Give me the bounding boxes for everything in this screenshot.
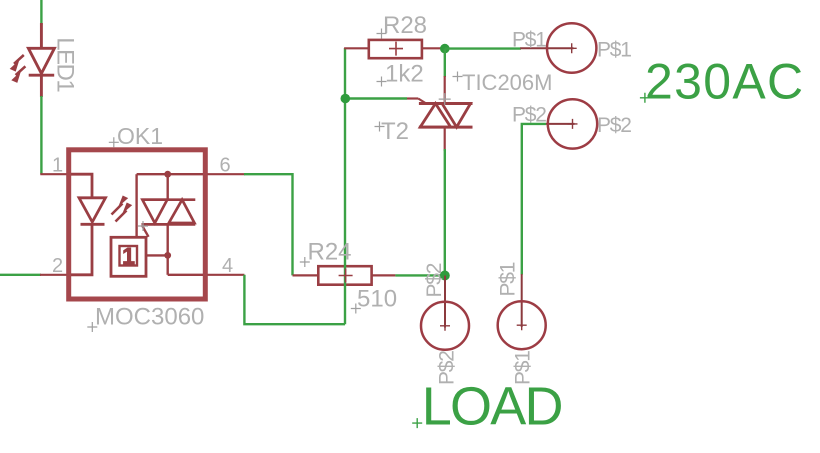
svg-text:4: 4 bbox=[222, 255, 233, 277]
opto internal light arrows bbox=[112, 196, 133, 222]
svg-text:P$2: P$2 bbox=[423, 263, 446, 297]
pad P$2 top bbox=[546, 99, 597, 148]
wire bbox=[444, 49, 446, 77]
junction bbox=[440, 271, 450, 281]
net label LOAD bbox=[412, 377, 561, 437]
wire bbox=[40, 0, 42, 25]
svg-text:TIC206M: TIC206M bbox=[462, 70, 552, 95]
svg-text:P$1: P$1 bbox=[497, 262, 520, 296]
junction bbox=[440, 44, 450, 54]
svg-text:6: 6 bbox=[220, 154, 231, 176]
opto internal MT1 wire bbox=[146, 224, 203, 274]
svg-text:P$1: P$1 bbox=[512, 29, 546, 52]
resistor R28 bbox=[344, 40, 443, 58]
pin 4 stub bbox=[208, 274, 245, 276]
svg-text:510: 510 bbox=[357, 286, 397, 313]
svg-text:R28: R28 bbox=[383, 12, 427, 39]
pad P$1 bottom bbox=[498, 274, 546, 349]
label R24 bbox=[300, 239, 352, 268]
wire bbox=[244, 174, 293, 275]
wire gate bbox=[345, 97, 407, 99]
wire bbox=[522, 124, 546, 275]
svg-text:OK1: OK1 bbox=[117, 123, 163, 149]
label MOC3060 bbox=[87, 304, 204, 333]
label TIC206M bbox=[453, 70, 553, 95]
svg-text:R24: R24 bbox=[308, 239, 352, 266]
wire bbox=[344, 48, 346, 99]
pad P$1 top bbox=[520, 23, 596, 72]
opto internal top wire bbox=[137, 174, 203, 237]
pad P$2 bottom bbox=[421, 276, 469, 350]
optocoupler OK1 box bbox=[69, 150, 206, 299]
wire bbox=[244, 275, 345, 324]
label LED1 bbox=[52, 37, 79, 92]
svg-text:2: 2 bbox=[52, 255, 63, 277]
svg-text:LOAD: LOAD bbox=[422, 377, 562, 437]
svg-text:230AC: 230AC bbox=[645, 54, 804, 110]
svg-text:P$1: P$1 bbox=[597, 39, 631, 62]
triac T2 bbox=[407, 76, 473, 151]
pin 6 stub bbox=[208, 173, 246, 175]
wire bbox=[40, 96, 42, 174]
wire bbox=[395, 274, 444, 276]
svg-text:1k2: 1k2 bbox=[385, 61, 424, 88]
svg-text:P$2: P$2 bbox=[597, 114, 631, 137]
label 1k2 bbox=[377, 61, 424, 88]
junction bbox=[164, 171, 171, 178]
svg-text:MOC3060: MOC3060 bbox=[95, 304, 204, 331]
wire bbox=[445, 47, 521, 49]
resistor R24 cross bbox=[339, 269, 353, 283]
net label 230AC bbox=[640, 54, 804, 110]
label R28 bbox=[377, 12, 428, 39]
label 510 bbox=[351, 286, 397, 314]
wire bbox=[344, 99, 346, 325]
junction bbox=[341, 94, 351, 104]
wire bbox=[0, 274, 41, 276]
label T2 bbox=[375, 118, 410, 145]
part origin cross bbox=[138, 221, 148, 231]
opto internal triac bbox=[142, 200, 196, 225]
pin 2 stub bbox=[40, 274, 67, 276]
svg-text:1: 1 bbox=[122, 243, 135, 269]
opto pad-1 box bbox=[111, 237, 146, 276]
svg-text:1: 1 bbox=[52, 154, 63, 176]
resistor R24 bbox=[293, 266, 396, 285]
LED LED1 bbox=[10, 23, 55, 97]
svg-text:T2: T2 bbox=[381, 118, 409, 145]
part origin cross bbox=[439, 93, 451, 105]
label OK1 bbox=[109, 123, 163, 149]
opto internal LED bbox=[71, 174, 106, 275]
wire bbox=[444, 149, 446, 276]
opto gate diagonal bbox=[142, 225, 149, 237]
junction bbox=[164, 252, 171, 259]
svg-text:LED1: LED1 bbox=[52, 37, 79, 92]
pin 1 stub bbox=[40, 173, 67, 175]
